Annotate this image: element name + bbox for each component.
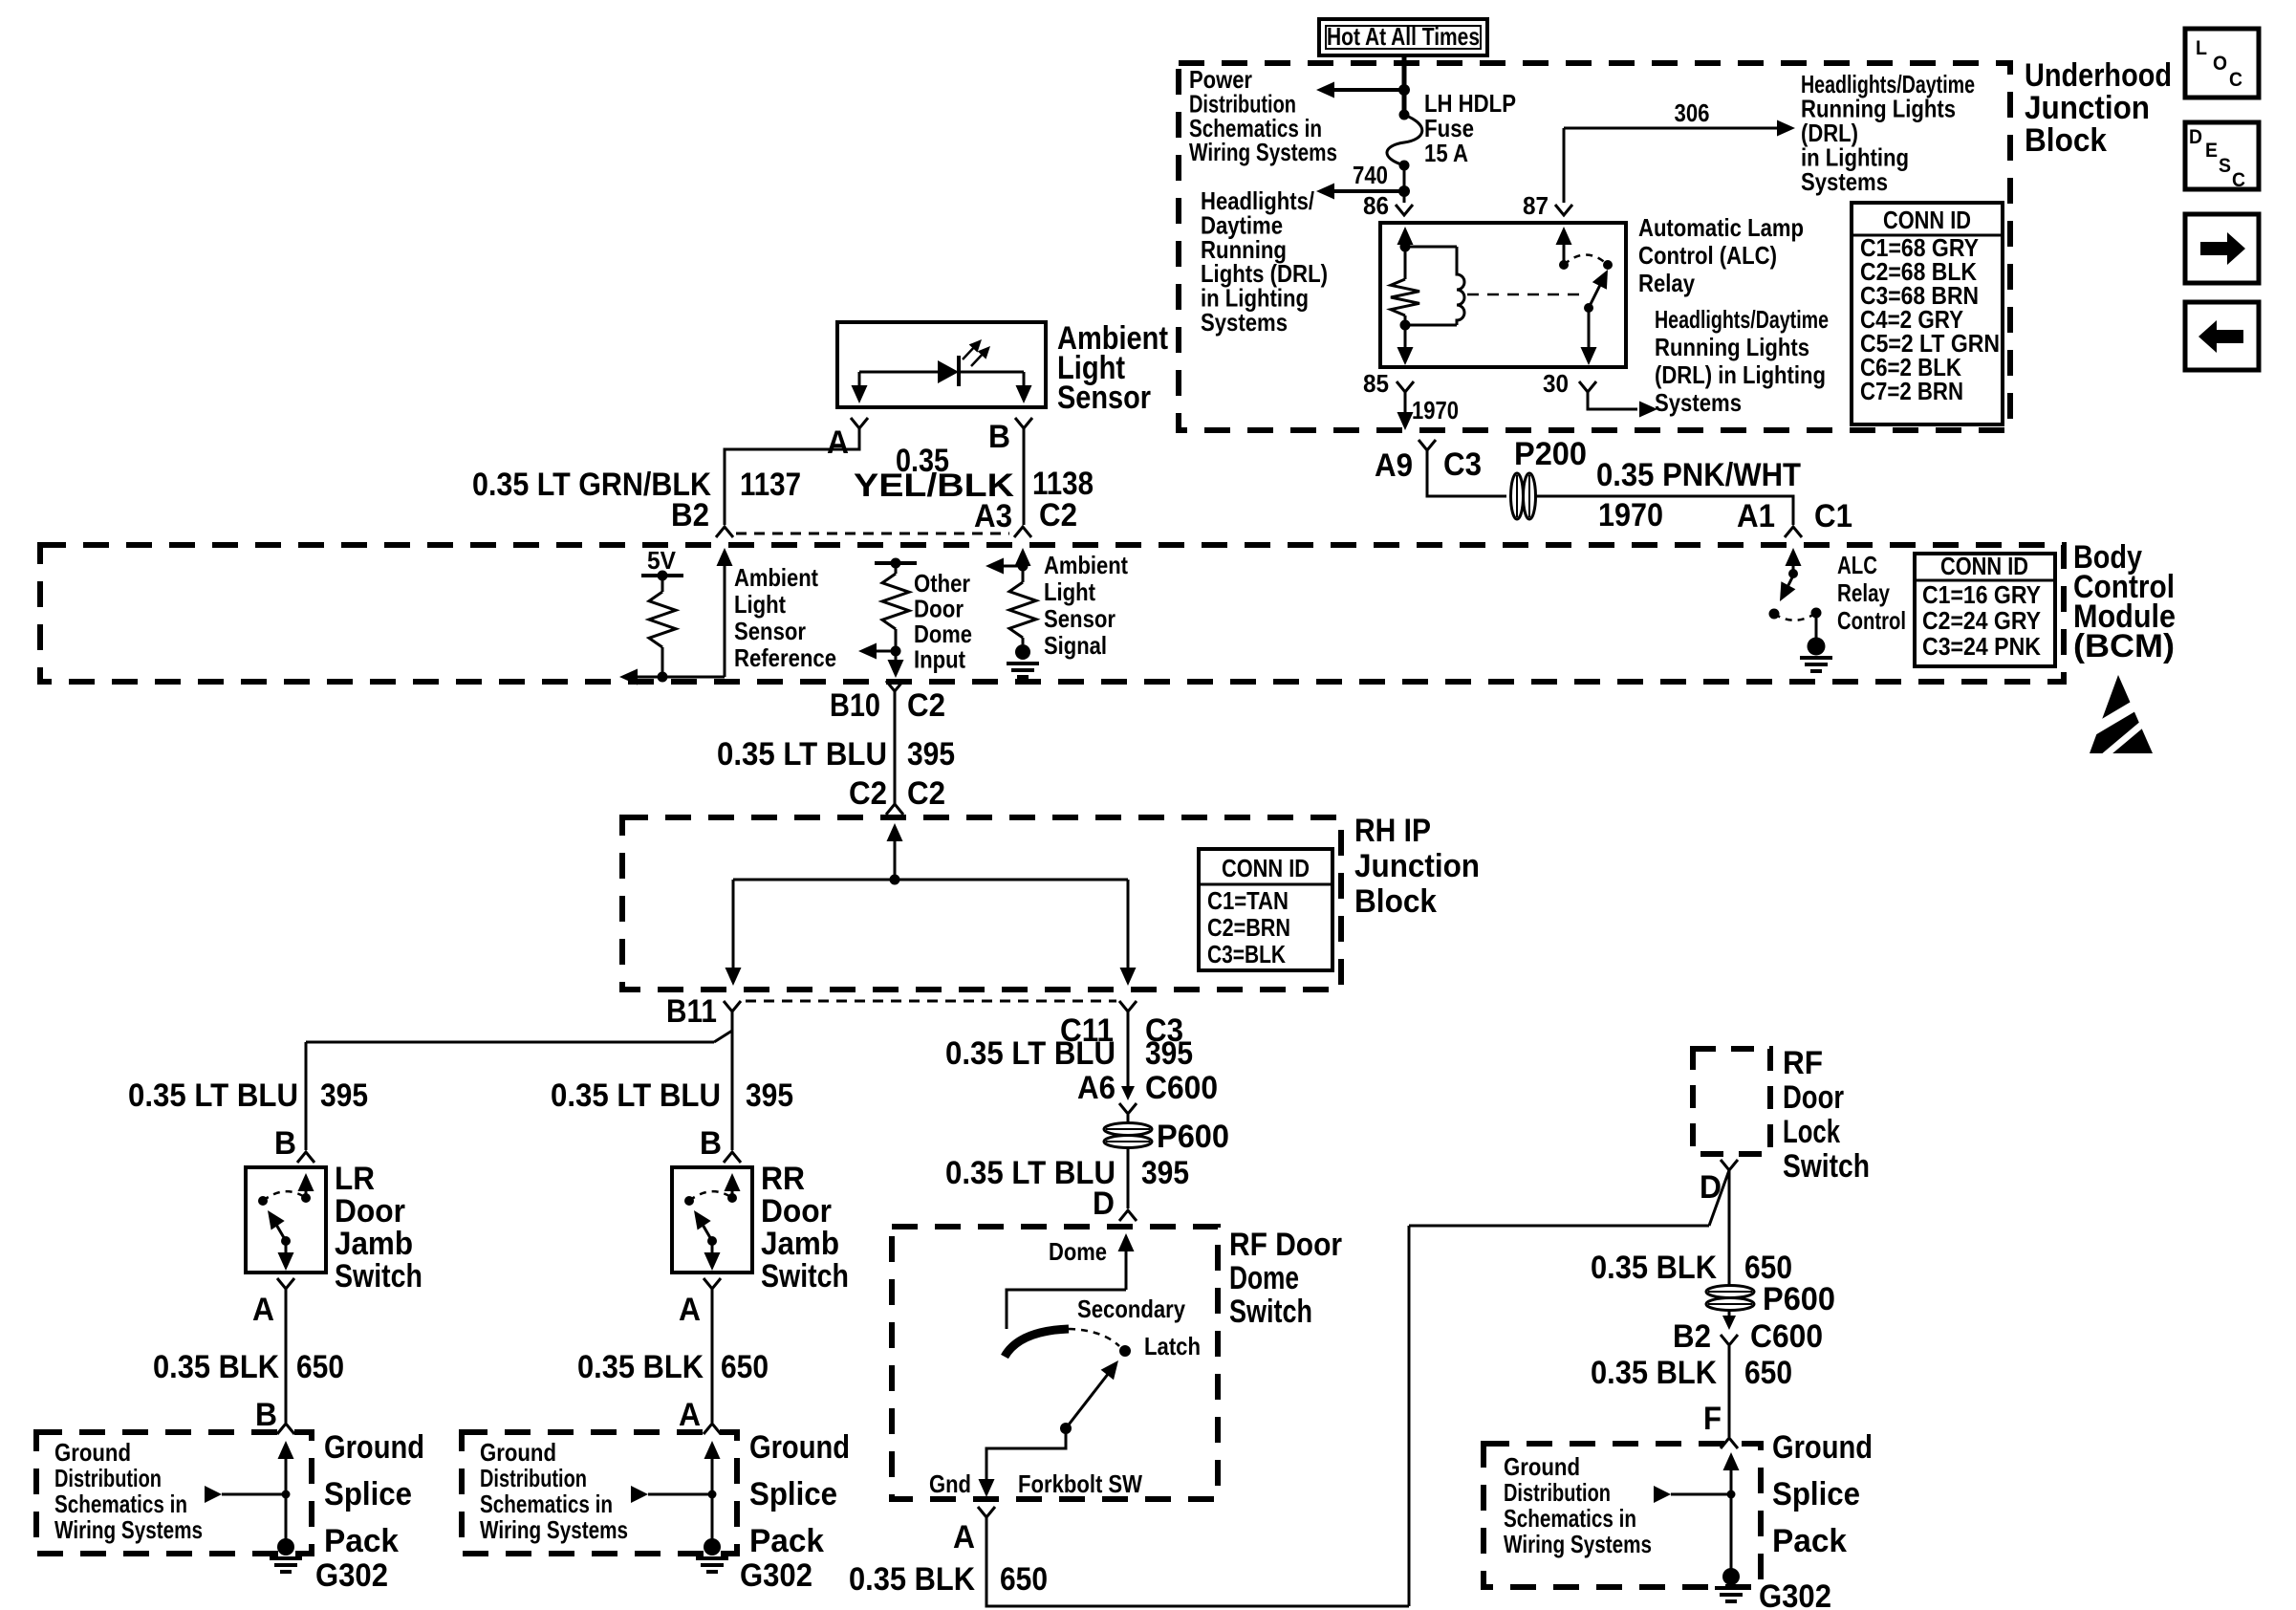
relay switch common arrow pin 87 (1556, 227, 1572, 265)
svg-text:Control (ALC): Control (ALC) (1638, 241, 1777, 270)
label A sensor pin (827, 424, 849, 461)
label A (RR pin) (679, 1292, 701, 1328)
wire other door dome left arrow (858, 643, 896, 660)
relay coil branch entry arrow pin 86 (1397, 227, 1414, 247)
svg-text:ALC: ALC (1837, 551, 1877, 579)
label A (RR splice pin) (679, 1397, 701, 1433)
label 0.35 LT BLU (C11) (945, 1035, 1116, 1072)
grommet P200 (1511, 473, 1536, 519)
svg-text:Latch: Latch (1144, 1332, 1201, 1360)
label Body Control Module BCM (2073, 539, 2176, 664)
svg-text:Relay: Relay (1638, 269, 1695, 297)
label 0.35 PNK/WHT (1596, 457, 1801, 493)
label G302 (2) (740, 1557, 812, 1594)
body control module dashed box (40, 545, 2064, 682)
label text Headlights Daytime Running Lights DRL in Lighting Systems (left) (1201, 186, 1328, 337)
svg-text:Pack: Pack (749, 1523, 824, 1559)
grommet P600 (lock) (1706, 1286, 1754, 1311)
svg-text:Junction: Junction (1354, 848, 1480, 884)
label Headlights Daytime Running Lights DRL in Lighting Systems (right) (1655, 305, 1829, 417)
svg-text:Schematics in: Schematics in (480, 1490, 613, 1518)
label 1970 small (1412, 396, 1459, 424)
svg-text:0.35 BLK: 0.35 BLK (1591, 1250, 1717, 1286)
wire C600 to P600 (1127, 1115, 1130, 1124)
wire branch horizontal to LR (306, 1041, 714, 1044)
label 0.35 LT BLU (B10) (717, 736, 887, 772)
label text Power Distribution Schematics in Wiring Systems (1189, 65, 1337, 166)
ground BCM ambient signal (1007, 644, 1039, 677)
label 650 (RR) (721, 1349, 769, 1385)
ground splice pack 1 dashed box (36, 1432, 312, 1554)
label LH HDLP Fuse 15 A (1424, 89, 1516, 167)
svg-text:Schematics in: Schematics in (54, 1490, 187, 1518)
svg-text:G302: G302 (315, 1557, 388, 1594)
label F (splice pin) (1703, 1401, 1722, 1437)
svg-text:395: 395 (1145, 1035, 1193, 1072)
label A6 (1077, 1070, 1116, 1106)
label B2 (671, 497, 709, 533)
connector LR pin A (277, 1278, 294, 1289)
svg-text:Signal: Signal (1044, 631, 1107, 660)
wire P600 to B2 C600 (1728, 1310, 1731, 1317)
label G302 (3) (1759, 1578, 1831, 1610)
label 395 (P600) (1141, 1155, 1189, 1191)
svg-text:Ambient: Ambient (734, 563, 818, 592)
node other door dome top dot (891, 558, 901, 569)
svg-text:C2: C2 (907, 775, 945, 812)
svg-text:0.35 BLK: 0.35 BLK (849, 1561, 975, 1598)
svg-text:(BCM): (BCM) (2073, 628, 2175, 664)
label C2 right of B10 (907, 687, 945, 724)
wire P600 to D pin (1127, 1148, 1130, 1208)
svg-text:Other: Other (914, 569, 970, 598)
label 650 (lock lower) (1744, 1355, 1792, 1391)
svg-text:C3=24 PNK: C3=24 PNK (1922, 632, 2041, 661)
node ALC relay control pole (1788, 569, 1798, 578)
ESD sensitivity symbol (2090, 675, 2153, 757)
svg-text:Ambient: Ambient (1044, 551, 1128, 579)
connector sensor pin A (851, 418, 868, 428)
svg-text:A9: A9 (1375, 447, 1413, 484)
svg-text:Switch: Switch (335, 1258, 422, 1295)
ground G302 (3) (1715, 1568, 1747, 1601)
label A9 (1375, 447, 1413, 484)
label C3 right of C11 (1145, 1012, 1183, 1049)
svg-text:B: B (988, 419, 1010, 455)
svg-text:0.35 BLK: 0.35 BLK (153, 1349, 279, 1385)
svg-text:Distribution: Distribution (54, 1464, 162, 1492)
label C3 (1443, 446, 1482, 483)
ground splice 2 entry arrow (704, 1441, 721, 1540)
svg-text:0.35 BLK: 0.35 BLK (577, 1349, 704, 1385)
svg-text:Dome: Dome (1049, 1237, 1107, 1266)
connector inline C600 (B2) (1721, 1316, 1738, 1345)
ground splice 3 reference arrow (1654, 1486, 1736, 1503)
label 0.35 BLK (lock lower) (1591, 1355, 1717, 1391)
wire ambient signal left arrow (986, 558, 1023, 575)
svg-text:A: A (679, 1397, 701, 1433)
node 5V bar dot (658, 571, 668, 581)
svg-text:P200: P200 (1514, 436, 1587, 472)
svg-text:Sensor: Sensor (1044, 604, 1116, 633)
svg-text:C3: C3 (1443, 446, 1482, 483)
nav box arrow left (2185, 302, 2259, 370)
svg-text:P600: P600 (1763, 1281, 1835, 1317)
node latch contact dot (1119, 1345, 1131, 1357)
forkbolt switch blade arrow (1066, 1360, 1118, 1428)
wire photodiode anode (859, 371, 938, 374)
wire C11 down to C600 (1127, 1012, 1130, 1088)
svg-text:Junction: Junction (2025, 90, 2150, 126)
svg-text:Block: Block (2025, 122, 2107, 159)
connector sensor pin B (1015, 418, 1032, 428)
label P200 (1514, 436, 1587, 472)
connector splice pin F (1721, 1438, 1738, 1448)
label text Headlights Daytime Running Lights DRL top right (1801, 70, 1975, 196)
ground splice 3 entry arrow (1723, 1452, 1740, 1573)
svg-text:C600: C600 (1750, 1318, 1823, 1355)
wire sensor B to BCM A3 (1023, 428, 1026, 525)
label 0.35 LT GRN/BLK (472, 467, 711, 503)
ground ALC relay control (1800, 638, 1832, 672)
connector RR splice pin A (704, 1424, 721, 1434)
label 650 (lock upper) (1744, 1250, 1792, 1286)
switch S2 RR door jamb (672, 1167, 752, 1273)
label C2 at A3 (1039, 497, 1077, 533)
nav box arrow right (2185, 214, 2259, 283)
relay switch travel dashed arc (1564, 255, 1608, 266)
label 0.35 BLK (RR) (577, 1349, 704, 1385)
label B (LR splice pin) (255, 1397, 277, 1433)
svg-text:C600: C600 (1145, 1070, 1218, 1106)
ground G302 (2) (696, 1538, 728, 1572)
wire ALC right contact to ground (1815, 613, 1818, 638)
label 395 (B10) (907, 736, 955, 772)
power 5V supply bar (641, 546, 683, 576)
svg-text:P600: P600 (1157, 1119, 1229, 1155)
svg-text:A1: A1 (1737, 498, 1775, 534)
wire LR A to ground splice (285, 1289, 288, 1423)
label Ground Distribution Schematics (1) (54, 1438, 203, 1544)
ground splice 2 reference arrow (631, 1486, 717, 1503)
table CONN ID BCM (1915, 552, 2055, 666)
svg-text:Jamb: Jamb (761, 1226, 839, 1262)
relay K1 Automatic Lamp Control box (1380, 223, 1626, 367)
node forkbolt pivot dot (1060, 1423, 1072, 1434)
wire dome internal to blade hinge (1007, 1290, 1126, 1329)
svg-text:395: 395 (746, 1077, 793, 1114)
svg-text:Schematics in: Schematics in (1504, 1504, 1636, 1533)
nav box LOC (2185, 29, 2259, 98)
svg-text:Systems: Systems (1655, 388, 1742, 417)
label RF Door Lock Switch (1783, 1045, 1870, 1185)
connector BCM pin A3 C2 (1014, 527, 1031, 537)
svg-text:85: 85 (1363, 369, 1389, 398)
label A (LR pin) (252, 1292, 274, 1328)
label Automatic Lamp Control ALC Relay (1638, 213, 1804, 297)
svg-text:Automatic Lamp: Automatic Lamp (1638, 213, 1804, 242)
svg-text:86: 86 (1363, 191, 1389, 220)
power feed label box "Hot At All Times" (1319, 19, 1487, 55)
connector dome pin A (978, 1507, 995, 1517)
svg-text:Door: Door (1783, 1079, 1844, 1116)
BCM pin B2 entry arrow (717, 548, 733, 677)
wire RH IP horizontal rail (733, 879, 1128, 881)
label 0.35 LT BLU (RR) (551, 1077, 721, 1114)
svg-text:B: B (274, 1125, 296, 1162)
connector RR pin A (704, 1278, 721, 1289)
label ALC Relay Control (1837, 551, 1906, 635)
label 0.35 YEL/BLK (854, 443, 1015, 504)
label A1 (1737, 498, 1775, 534)
svg-text:Door: Door (761, 1193, 832, 1229)
BCM connector strip dashed line B2-A3 (736, 533, 1009, 535)
svg-text:RR: RR (761, 1161, 805, 1197)
ground splice 1 entry arrow (278, 1441, 294, 1540)
label Ambient Light Sensor Reference (734, 563, 836, 672)
svg-text:Wiring Systems: Wiring Systems (1504, 1530, 1652, 1558)
svg-text:Hot At All Times: Hot At All Times (1327, 22, 1480, 51)
node relay switch right contact (1603, 260, 1613, 270)
wire pin 85 down with arrow 1970 (1397, 392, 1414, 430)
node junction dot 740 (1398, 185, 1410, 197)
svg-text:650: 650 (721, 1349, 769, 1385)
svg-text:B: B (700, 1125, 722, 1162)
label B10 (830, 687, 880, 724)
connector pin 85 (1397, 381, 1414, 392)
connector A9 C3 (1419, 440, 1436, 450)
svg-text:CONN ID: CONN ID (1222, 854, 1310, 882)
label Secondary (1077, 1295, 1185, 1323)
ALC relay control switch blade arrow (1780, 574, 1795, 601)
fuse F1 LH HDLP 15A (1387, 110, 1422, 171)
wire RH IP right leg arrow C11 (1120, 880, 1137, 986)
node ALC right contact (1811, 608, 1822, 619)
svg-text:(DRL) in Lighting: (DRL) in Lighting (1655, 360, 1826, 389)
node ALC left contact (1769, 609, 1780, 620)
label Ground Distribution Schematics (3) (1504, 1452, 1652, 1558)
svg-text:650: 650 (1744, 1355, 1792, 1391)
connector dome pin D (1119, 1210, 1137, 1221)
svg-text:Door: Door (914, 595, 964, 623)
label B11 (666, 993, 717, 1030)
svg-text:Secondary: Secondary (1077, 1295, 1185, 1323)
svg-text:Sensor: Sensor (734, 617, 806, 645)
wire other door dome down arrow B10 (888, 651, 904, 678)
svg-text:Dome: Dome (1229, 1260, 1299, 1296)
svg-text:Sensor: Sensor (1057, 380, 1151, 416)
svg-text:0.35 LT BLU: 0.35 LT BLU (551, 1077, 721, 1114)
label 650 (dome) (1000, 1561, 1048, 1598)
label C11 (1060, 1012, 1114, 1049)
wire dome A ground run (986, 1517, 1409, 1606)
node relay coil bottom junction (1400, 320, 1411, 331)
svg-text:0.35 LT BLU: 0.35 LT BLU (945, 1035, 1116, 1072)
svg-text:Wiring Systems: Wiring Systems (54, 1515, 203, 1544)
wire B11 branch diagonal (714, 1031, 732, 1042)
svg-text:Distribution: Distribution (480, 1464, 587, 1492)
wire relay bottom rail (1405, 324, 1457, 327)
label Ground Distribution Schematics (2) (480, 1438, 628, 1544)
wire relay top rail (1405, 246, 1457, 249)
ALC switch travel dashed arc (1774, 613, 1816, 620)
label C600 (lock) (1750, 1318, 1823, 1355)
label B (RR pin) (700, 1125, 722, 1162)
wire pin 87 to 306 line (1563, 128, 1566, 203)
label LR Door Jamb Switch (335, 1161, 422, 1295)
label D (dome pin) (1093, 1186, 1115, 1222)
label 30 (1543, 369, 1569, 398)
wire BCM 5V pull-up bottom rail (619, 669, 725, 685)
label 0.35 LT BLU (LR) (128, 1077, 298, 1114)
svg-text:1970: 1970 (1412, 396, 1459, 424)
svg-text:395: 395 (1141, 1155, 1189, 1191)
svg-text:87: 87 (1523, 191, 1549, 220)
svg-text:Light: Light (734, 590, 786, 619)
wire B10 to RH IP (894, 691, 897, 804)
label 0.35 LT BLU (P600) (945, 1155, 1116, 1191)
underhood junction block dashed box (1179, 63, 2010, 430)
svg-text:Ground: Ground (1504, 1452, 1580, 1481)
connector pin 86 (1396, 205, 1413, 215)
label 395 (LR) (320, 1077, 368, 1114)
svg-text:Light: Light (1044, 577, 1095, 606)
label C600 (A6) (1145, 1070, 1218, 1106)
label C1 (1814, 498, 1852, 534)
wire fuse to pin 86 (1403, 165, 1406, 203)
svg-text:CONN ID: CONN ID (1940, 552, 2028, 580)
wire pin 30 to DRL arrow (1588, 392, 1657, 418)
svg-text:A: A (252, 1292, 274, 1328)
connector A1 C1 (1785, 527, 1802, 537)
resistor relay internal (1391, 247, 1419, 325)
svg-text:Switch: Switch (1229, 1294, 1312, 1330)
svg-text:395: 395 (907, 736, 955, 772)
svg-text:306: 306 (1675, 98, 1710, 127)
dome switch entry arrow (1118, 1233, 1135, 1290)
grommet P600 (dome) (1104, 1123, 1152, 1148)
connector LR pin B (297, 1152, 314, 1163)
label B sensor pin (988, 419, 1010, 455)
svg-text:Input: Input (914, 645, 965, 674)
label B2 (lock) (1673, 1318, 1711, 1355)
svg-text:RH IP: RH IP (1354, 813, 1431, 849)
svg-text:1970: 1970 (1598, 497, 1663, 533)
svg-text:Relay: Relay (1837, 578, 1890, 607)
RH IP junction block dashed box (622, 817, 1341, 990)
other door dome input bar (875, 561, 917, 565)
label Ground Splice Pack (2) (749, 1429, 850, 1559)
connector pin 30 (1579, 381, 1596, 392)
svg-text:B11: B11 (666, 993, 717, 1030)
svg-text:Jamb: Jamb (335, 1226, 413, 1262)
connector C2 C2 bottom (886, 804, 903, 815)
label 1970 (1598, 497, 1663, 533)
svg-text:CONN ID: CONN ID (1883, 206, 1971, 234)
wire forkbolt to gnd pin (979, 1428, 1067, 1497)
svg-text:Ground: Ground (324, 1429, 424, 1466)
svg-text:A: A (827, 424, 849, 461)
resistor ambient light sensor signal (1009, 566, 1036, 644)
svg-text:D: D (2189, 126, 2202, 148)
svg-text:Running Lights: Running Lights (1655, 333, 1809, 361)
wire corner down to LR switch (305, 1042, 308, 1150)
svg-text:C1: C1 (1814, 498, 1852, 534)
label A (dome pin) (953, 1519, 975, 1556)
svg-text:C: C (2229, 69, 2242, 91)
svg-text:0.35 LT BLU: 0.35 LT BLU (128, 1077, 298, 1114)
svg-text:0.35 LT BLU: 0.35 LT BLU (717, 736, 887, 772)
dome switch thick blade arc (1005, 1329, 1069, 1357)
svg-text:Switch: Switch (1783, 1148, 1870, 1185)
photodiode D1 (938, 356, 1024, 386)
wire 306 with arrow (1564, 120, 1795, 137)
svg-text:650: 650 (296, 1349, 344, 1385)
switch S1 LR door jamb (246, 1167, 326, 1273)
svg-text:C2: C2 (1039, 497, 1077, 533)
wire arrow 740 to Headlights DRL (1316, 184, 1404, 200)
svg-text:RF: RF (1783, 1045, 1823, 1081)
relay switch blade with arrow (1589, 270, 1608, 308)
wire B11 down to RR switch (731, 1012, 734, 1150)
svg-text:C2=BRN: C2=BRN (1207, 913, 1290, 942)
svg-text:B2: B2 (1673, 1318, 1711, 1355)
wire relay coil to pin 85 arrow (1397, 325, 1414, 365)
svg-text:0.35 BLK: 0.35 BLK (1591, 1355, 1717, 1391)
rf door dome switch dashed box (892, 1227, 1218, 1499)
svg-text:Block: Block (1354, 883, 1437, 920)
label P600 (lock) (1763, 1281, 1835, 1317)
svg-text:S: S (2219, 155, 2231, 177)
ground splice 1 reference arrow (205, 1486, 291, 1503)
wire arrow to Power Distribution Schematics (1316, 82, 1404, 98)
label B (LR pin) (274, 1125, 296, 1162)
label 740 (1353, 161, 1388, 189)
wire C600 to F pin (1728, 1346, 1731, 1437)
resistor other door dome input (882, 563, 909, 651)
svg-text:L: L (2196, 37, 2207, 59)
label 0.35 BLK (lock upper) (1591, 1250, 1717, 1286)
svg-text:C7=2 BRN: C7=2 BRN (1860, 377, 1963, 405)
wire sensor A to BCM B2 (725, 428, 859, 525)
label 395 (C11) (1145, 1035, 1193, 1072)
svg-text:Splice: Splice (1772, 1476, 1860, 1512)
node ambient signal junction (1018, 561, 1029, 572)
table CONN ID underhood (1852, 203, 2003, 424)
label Underhood Junction Block (2025, 57, 2172, 159)
wire P200 to A1 (1534, 496, 1793, 525)
connector LR splice pin B (277, 1424, 294, 1434)
node BCM 5V resistor bottom junction (658, 672, 668, 683)
svg-text:5V: 5V (647, 546, 677, 575)
svg-text:C2: C2 (849, 775, 887, 812)
svg-text:Reference: Reference (734, 643, 836, 672)
connector lock pin D (1721, 1160, 1738, 1170)
label Gnd (929, 1469, 971, 1498)
label 1137 (740, 467, 801, 503)
inductor relay coil winding (1457, 247, 1464, 325)
svg-text:C1=16 GRY: C1=16 GRY (1922, 580, 2041, 609)
svg-text:Wiring Systems: Wiring Systems (1189, 138, 1337, 166)
label Dome (1049, 1237, 1107, 1266)
wire RR A to ground splice (711, 1289, 714, 1423)
svg-text:Switch: Switch (761, 1258, 849, 1295)
connector RR pin B (724, 1152, 741, 1163)
svg-text:Pack: Pack (324, 1523, 399, 1559)
label 0.35 BLK (dome) (849, 1561, 975, 1598)
svg-text:Pack: Pack (1772, 1523, 1847, 1559)
label RH IP Junction Block (1354, 813, 1480, 920)
